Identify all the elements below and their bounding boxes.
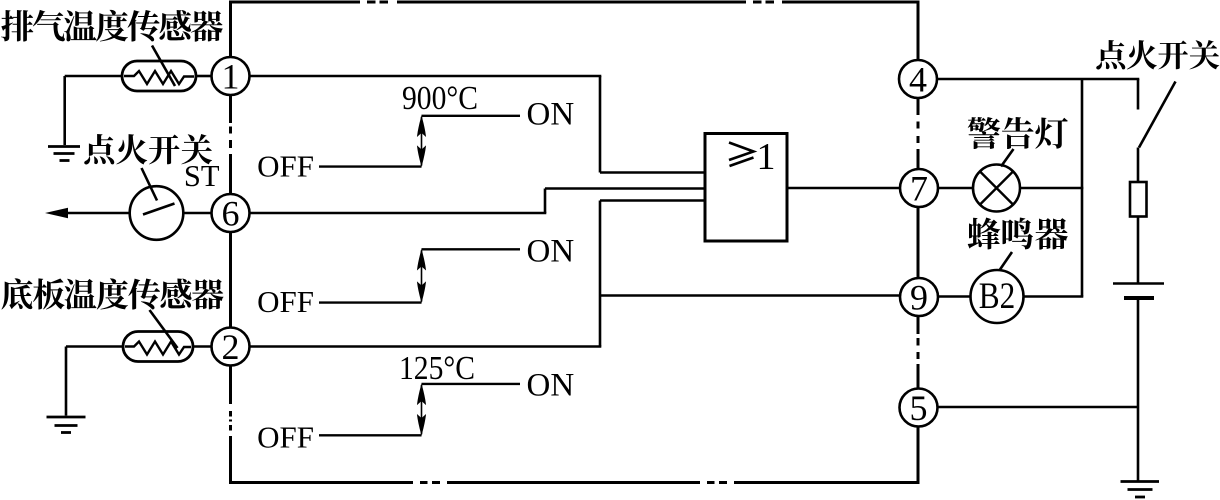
svg-text:ON: ON: [527, 368, 575, 404]
svg-text:4: 4: [909, 60, 927, 100]
svg-text:1: 1: [757, 136, 776, 178]
svg-text:6: 6: [222, 194, 240, 234]
svg-text:ON: ON: [527, 97, 575, 133]
svg-text:ST: ST: [184, 159, 220, 193]
svg-text:5: 5: [910, 388, 928, 428]
svg-text:ON: ON: [527, 234, 575, 270]
svg-text:7: 7: [910, 169, 928, 209]
svg-text:OFF: OFF: [257, 284, 314, 319]
svg-text:125°C: 125°C: [399, 350, 475, 387]
svg-text:2: 2: [222, 327, 240, 367]
svg-text:B2: B2: [979, 275, 1016, 316]
svg-text:1: 1: [222, 57, 240, 97]
svg-text:9: 9: [910, 278, 928, 318]
svg-text:900°C: 900°C: [402, 80, 478, 117]
svg-text:OFF: OFF: [257, 149, 314, 184]
svg-text:OFF: OFF: [257, 420, 314, 455]
